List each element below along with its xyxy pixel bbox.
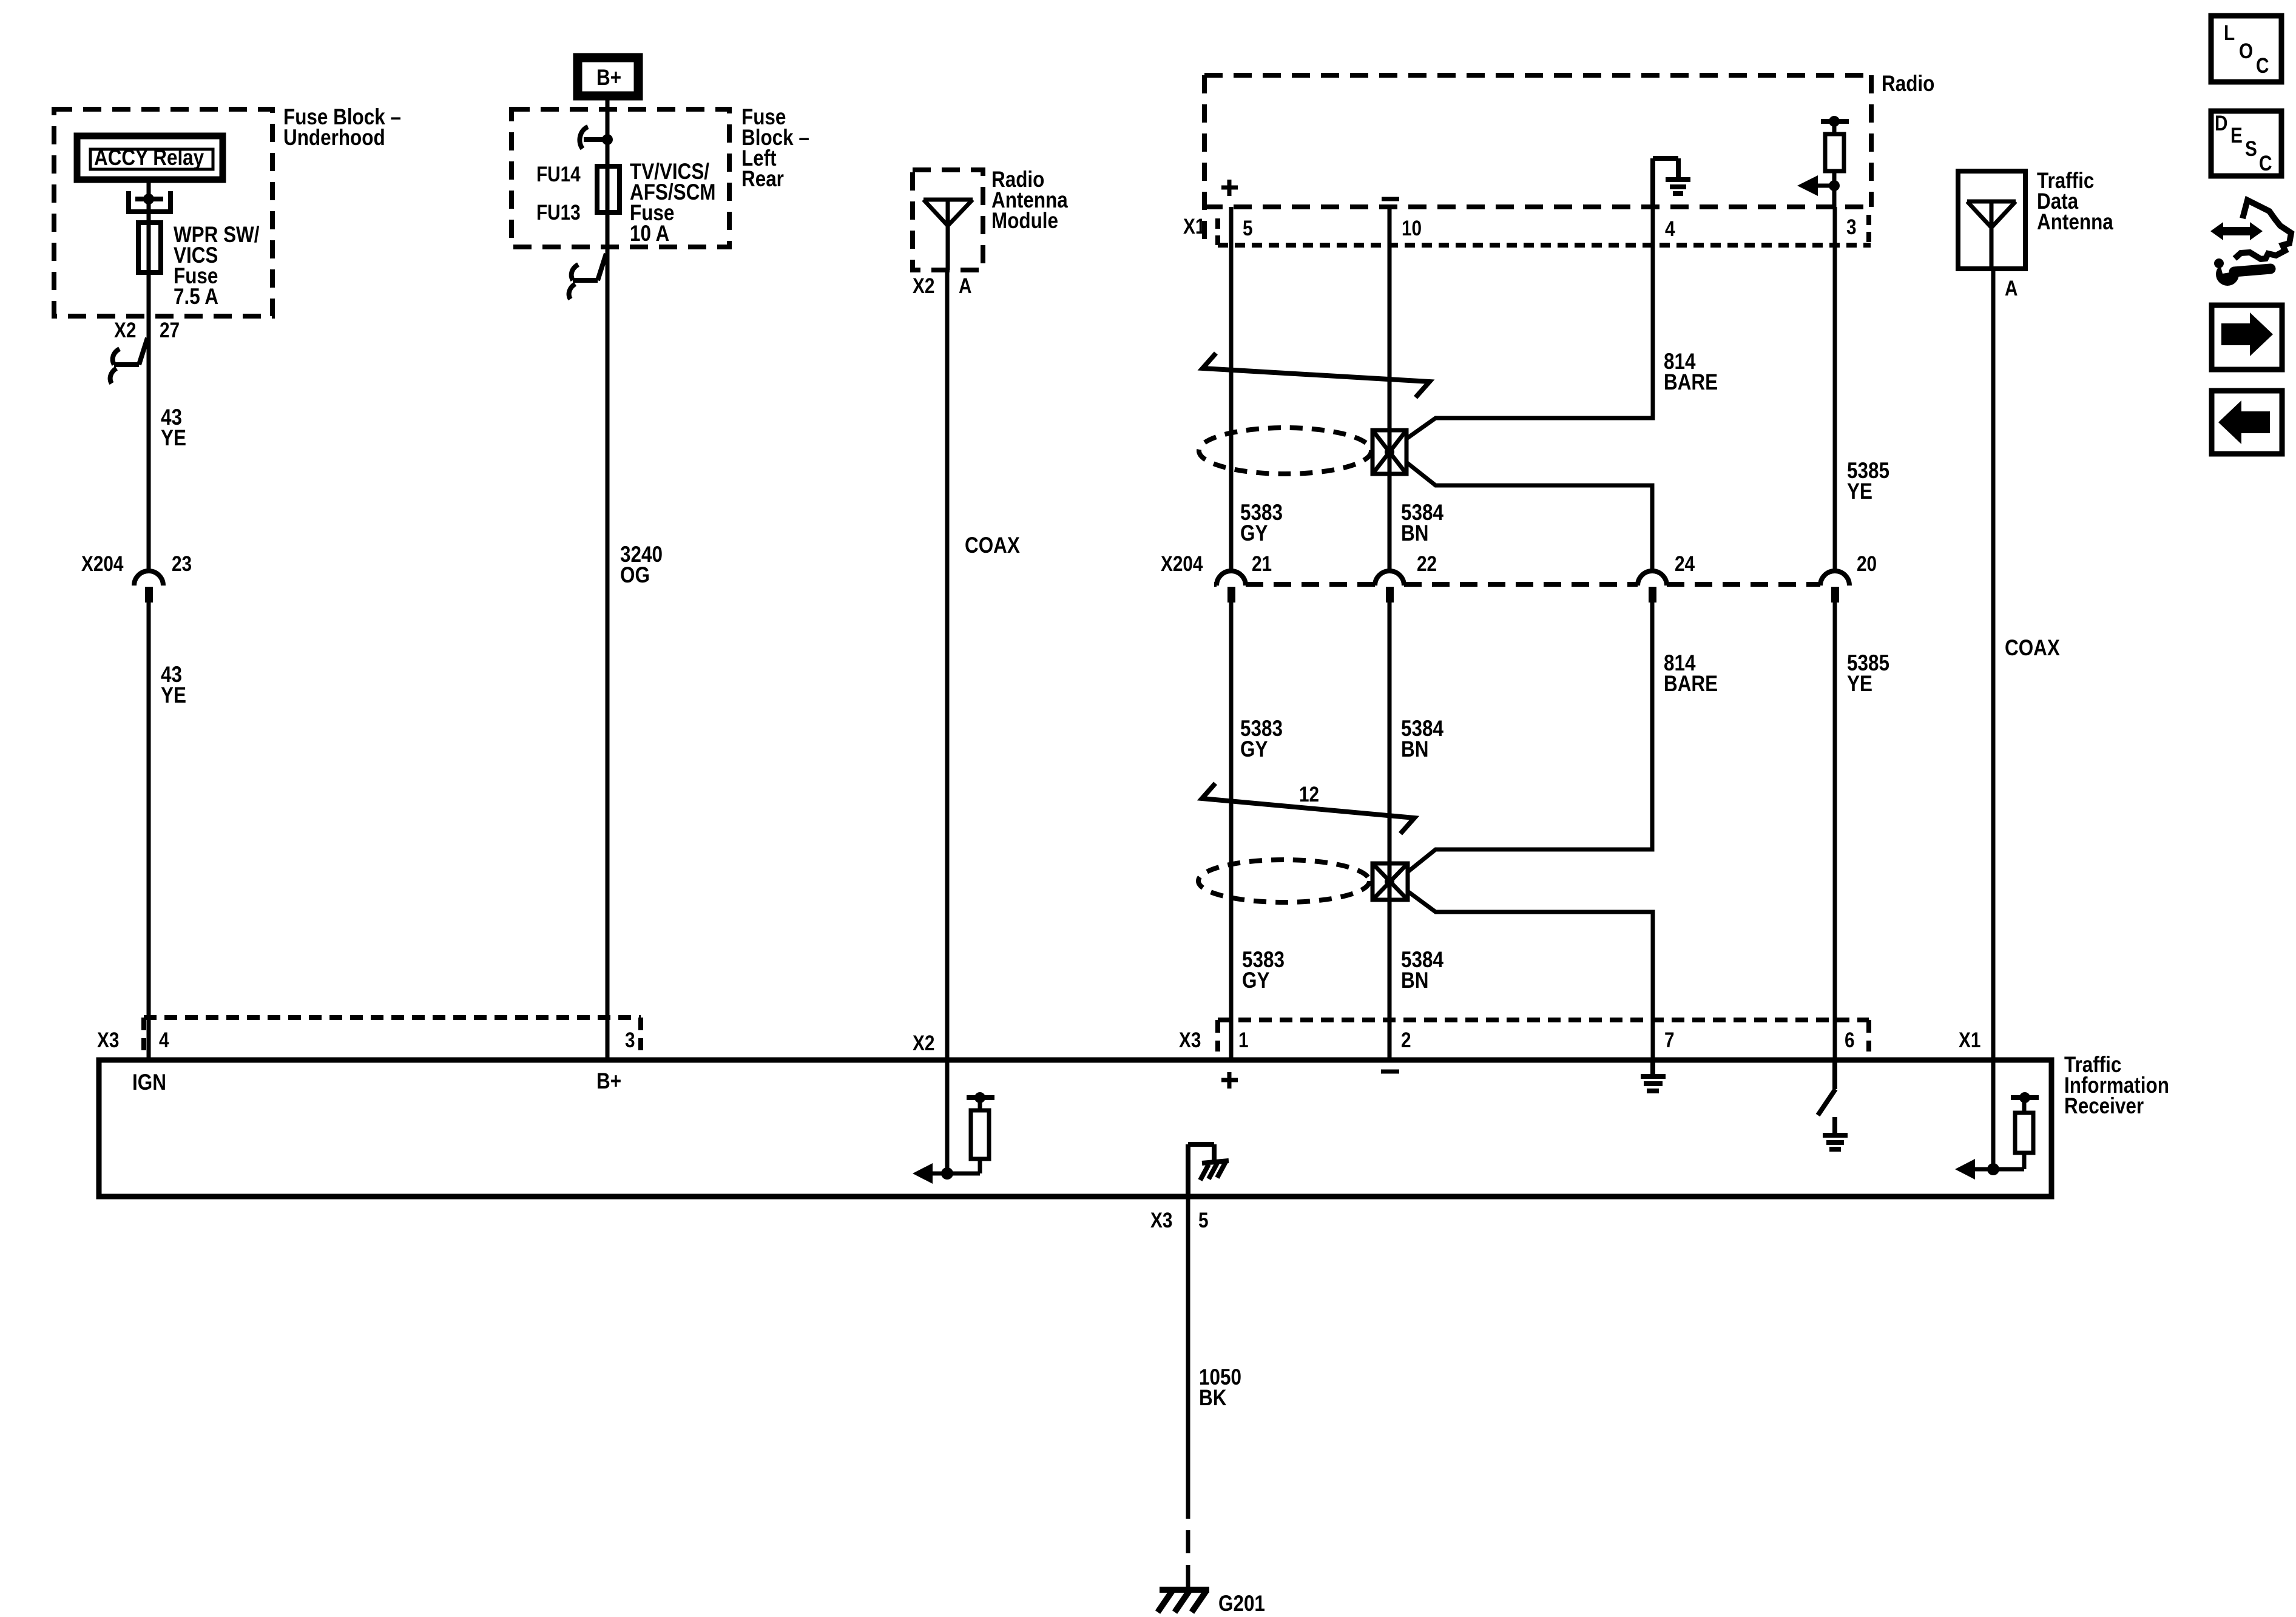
svg-text:BARE: BARE <box>1664 672 1718 697</box>
coax wire antenna to receiver X1 <box>1991 269 1996 1060</box>
svg-text:Radio: Radio <box>1882 72 1934 96</box>
shield drain box (upper) <box>1373 430 1406 474</box>
svg-text:X3: X3 <box>1150 1209 1172 1232</box>
svg-text:BK: BK <box>1199 1386 1227 1411</box>
svg-text:A: A <box>2005 277 2017 300</box>
svg-text:X1: X1 <box>1183 215 1205 238</box>
svg-text:ACCY Relay: ACCY Relay <box>94 146 204 170</box>
svg-text:7: 7 <box>1664 1028 1675 1052</box>
svg-text:GY: GY <box>1240 737 1268 762</box>
svg-text:Module: Module <box>991 209 1058 234</box>
wire radio pin10 to X204 pin22 (ckt 5384 BN) <box>1388 207 1392 571</box>
radio dashed box <box>1204 75 1871 245</box>
fuse block - underhood dashed box <box>54 109 272 316</box>
receiver internal switch to ground at pin 6 <box>1818 1060 1848 1149</box>
LOC icon box <box>2211 16 2281 82</box>
svg-text:Rear: Rear <box>741 167 784 192</box>
wire shield to X204 pin24 (ckt 814 BARE) <box>1406 462 1652 571</box>
svg-text:L: L <box>2224 21 2235 45</box>
svg-text:IGN: IGN <box>132 1070 166 1095</box>
radio pin5 polarity + <box>1221 180 1238 196</box>
svg-text:22: 22 <box>1417 552 1437 576</box>
svg-text:C: C <box>2256 54 2269 78</box>
X204 pin 22 terminal <box>1375 571 1404 586</box>
battery feed B+ box <box>578 58 638 96</box>
svg-text:G201: G201 <box>1218 1592 1265 1616</box>
receiver internal X2 coax termination <box>941 1167 953 1180</box>
connector X1 row of radio <box>1218 243 1871 248</box>
relay output contact bracket <box>129 191 171 212</box>
svg-text:FU13: FU13 <box>536 201 581 224</box>
svg-text:OG: OG <box>620 563 650 588</box>
svg-text:C: C <box>2259 152 2272 175</box>
diagnostic icon: double arrow, outline and wrench <box>2210 222 2263 240</box>
svg-text:10 A: 10 A <box>630 221 669 246</box>
svg-text:23: 23 <box>172 552 192 576</box>
svg-text:YE: YE <box>161 683 186 708</box>
svg-text:BN: BN <box>1401 521 1428 546</box>
wire B+ to fuse FU13 (into fuse block left rear) <box>606 100 610 166</box>
X204 pin 24 terminal <box>1638 571 1667 586</box>
svg-text:24: 24 <box>1675 552 1695 576</box>
wire radio pin3 to X204 pin20 (ckt 5385 YE) <box>1833 207 1837 571</box>
svg-text:YE: YE <box>1847 479 1872 504</box>
shield ellipse (upper) <box>1199 428 1371 474</box>
svg-text:O: O <box>2239 39 2253 63</box>
svg-text:BARE: BARE <box>1664 370 1718 395</box>
radio internal arrow at pin 3 <box>1829 180 1840 191</box>
radio internal ground at pin 4 <box>1653 158 1690 207</box>
svg-text:X204: X204 <box>1161 552 1203 576</box>
connector X3 row (right group, pins 1 2 7 6) <box>1218 1018 1869 1022</box>
traffic data antenna symbol <box>1967 201 2016 269</box>
svg-text:A: A <box>959 274 971 298</box>
svg-text:X2: X2 <box>913 1031 934 1055</box>
svg-text:FU14: FU14 <box>536 163 581 186</box>
svg-text:5: 5 <box>1198 1209 1209 1232</box>
twisted pair symbol (upper) <box>1203 353 1430 397</box>
svg-text:3: 3 <box>1846 215 1857 239</box>
svg-text:YE: YE <box>1847 672 1872 697</box>
wire receiver to G201 (ckt 1050 BK) <box>1186 1197 1190 1496</box>
wire X204 pin21 to receiver pin1 (ckt 5383 GY) <box>1229 603 1234 1060</box>
svg-text:X1: X1 <box>1959 1028 1980 1052</box>
wire X204 to receiver (ckt 43 YE) <box>147 603 151 1060</box>
svg-text:12: 12 <box>1299 783 1319 806</box>
receiver internal ground to X3 pin5 <box>1188 1144 1229 1197</box>
svg-text:D: D <box>2215 112 2227 135</box>
dashed wire section to G201 <box>1186 1496 1190 1590</box>
wire radio pin4 to shield (ckt 814 BARE) <box>1406 207 1653 439</box>
svg-text:YE: YE <box>161 426 186 451</box>
receiver pin 1 polarity + <box>1221 1072 1238 1089</box>
svg-text:GY: GY <box>1242 968 1270 993</box>
svg-text:B+: B+ <box>596 66 621 90</box>
receiver pin 2 polarity - <box>1381 1070 1399 1074</box>
fuse F1 WPR SW/VICS 7.5A <box>138 223 161 272</box>
svg-text:Receiver: Receiver <box>2064 1094 2144 1119</box>
wire X204 pin22 to receiver pin2 (ckt 5384 BN) <box>1388 603 1392 1060</box>
receiver internal X1 coax termination <box>1987 1163 1999 1175</box>
shield ellipse (lower) <box>1198 860 1369 902</box>
svg-text:X3: X3 <box>97 1028 119 1052</box>
radio antenna module dashed box <box>913 170 983 270</box>
wire X204 pin20 to receiver pin6 (ckt 5385 YE) <box>1833 603 1837 1060</box>
svg-text:5: 5 <box>1243 217 1253 240</box>
terminal clip at fuse block input <box>579 127 607 149</box>
svg-text:E: E <box>2230 124 2243 147</box>
svg-text:21: 21 <box>1252 552 1272 576</box>
svg-text:BN: BN <box>1401 968 1428 993</box>
wire X204 pin24 to shield (ckt 814 BARE) <box>1408 603 1652 872</box>
svg-text:Antenna: Antenna <box>2037 210 2114 235</box>
X204 pin 21 terminal <box>1217 571 1246 586</box>
svg-text:BN: BN <box>1401 737 1428 762</box>
wire radio pin5 to X204 pin21 (ckt 5383 GY) <box>1229 207 1234 571</box>
svg-text:X204: X204 <box>81 552 123 576</box>
coax wire antenna module to receiver <box>945 270 950 1060</box>
svg-text:B+: B+ <box>596 1069 621 1094</box>
connector X3 row (left group, pins 4 and 3) <box>144 1015 641 1020</box>
svg-text:X2: X2 <box>114 319 136 342</box>
terminal clip below fuse block <box>569 254 606 299</box>
svg-text:3: 3 <box>625 1028 635 1052</box>
svg-text:27: 27 <box>160 319 180 342</box>
ground G201 <box>1158 1590 1209 1612</box>
forward arrow icon box <box>2212 305 2282 370</box>
back arrow icon box <box>2212 391 2282 454</box>
receiver internal ground at pin 7 <box>1641 1060 1666 1091</box>
svg-text:2: 2 <box>1401 1028 1411 1052</box>
shield drain box (lower) <box>1373 863 1408 900</box>
antenna symbol <box>923 200 973 270</box>
svg-text:1: 1 <box>1238 1028 1249 1052</box>
svg-text:COAX: COAX <box>965 533 1020 558</box>
svg-text:7.5 A: 7.5 A <box>174 285 218 309</box>
svg-text:GY: GY <box>1240 521 1268 546</box>
radio pin10 polarity - <box>1382 197 1399 201</box>
wire fuse to receiver (ckt 3240 OG) <box>606 212 610 1060</box>
fuse block - left rear dashed box <box>512 109 729 247</box>
traffic data antenna box <box>1958 171 2025 269</box>
traffic information receiver box <box>99 1060 2051 1197</box>
svg-text:Underhood: Underhood <box>283 126 385 150</box>
svg-text:X2: X2 <box>913 274 934 298</box>
svg-text:20: 20 <box>1857 552 1877 576</box>
svg-text:10: 10 <box>1402 217 1422 240</box>
wire shield to receiver pin7 (ckt 814 BARE) <box>1408 891 1653 1060</box>
svg-text:6: 6 <box>1845 1028 1855 1052</box>
svg-text:4: 4 <box>1665 217 1675 241</box>
DESC icon box <box>2211 111 2281 176</box>
radio internal resistor at pin 3 <box>1821 119 1849 124</box>
wire from relay to fuse <box>147 183 151 223</box>
terminal clip at X2-27 <box>110 338 147 383</box>
svg-text:4: 4 <box>159 1028 169 1052</box>
svg-text:X3: X3 <box>1179 1028 1201 1052</box>
X204 pin 20 terminal <box>1820 571 1849 586</box>
relay K ACCY Relay box <box>77 136 223 180</box>
twisted pair symbol (lower) <box>1202 783 1414 834</box>
svg-text:COAX: COAX <box>2005 636 2060 661</box>
wire fuse to X204 (ckt 43 YE) <box>147 272 151 571</box>
svg-text:S: S <box>2245 137 2257 161</box>
